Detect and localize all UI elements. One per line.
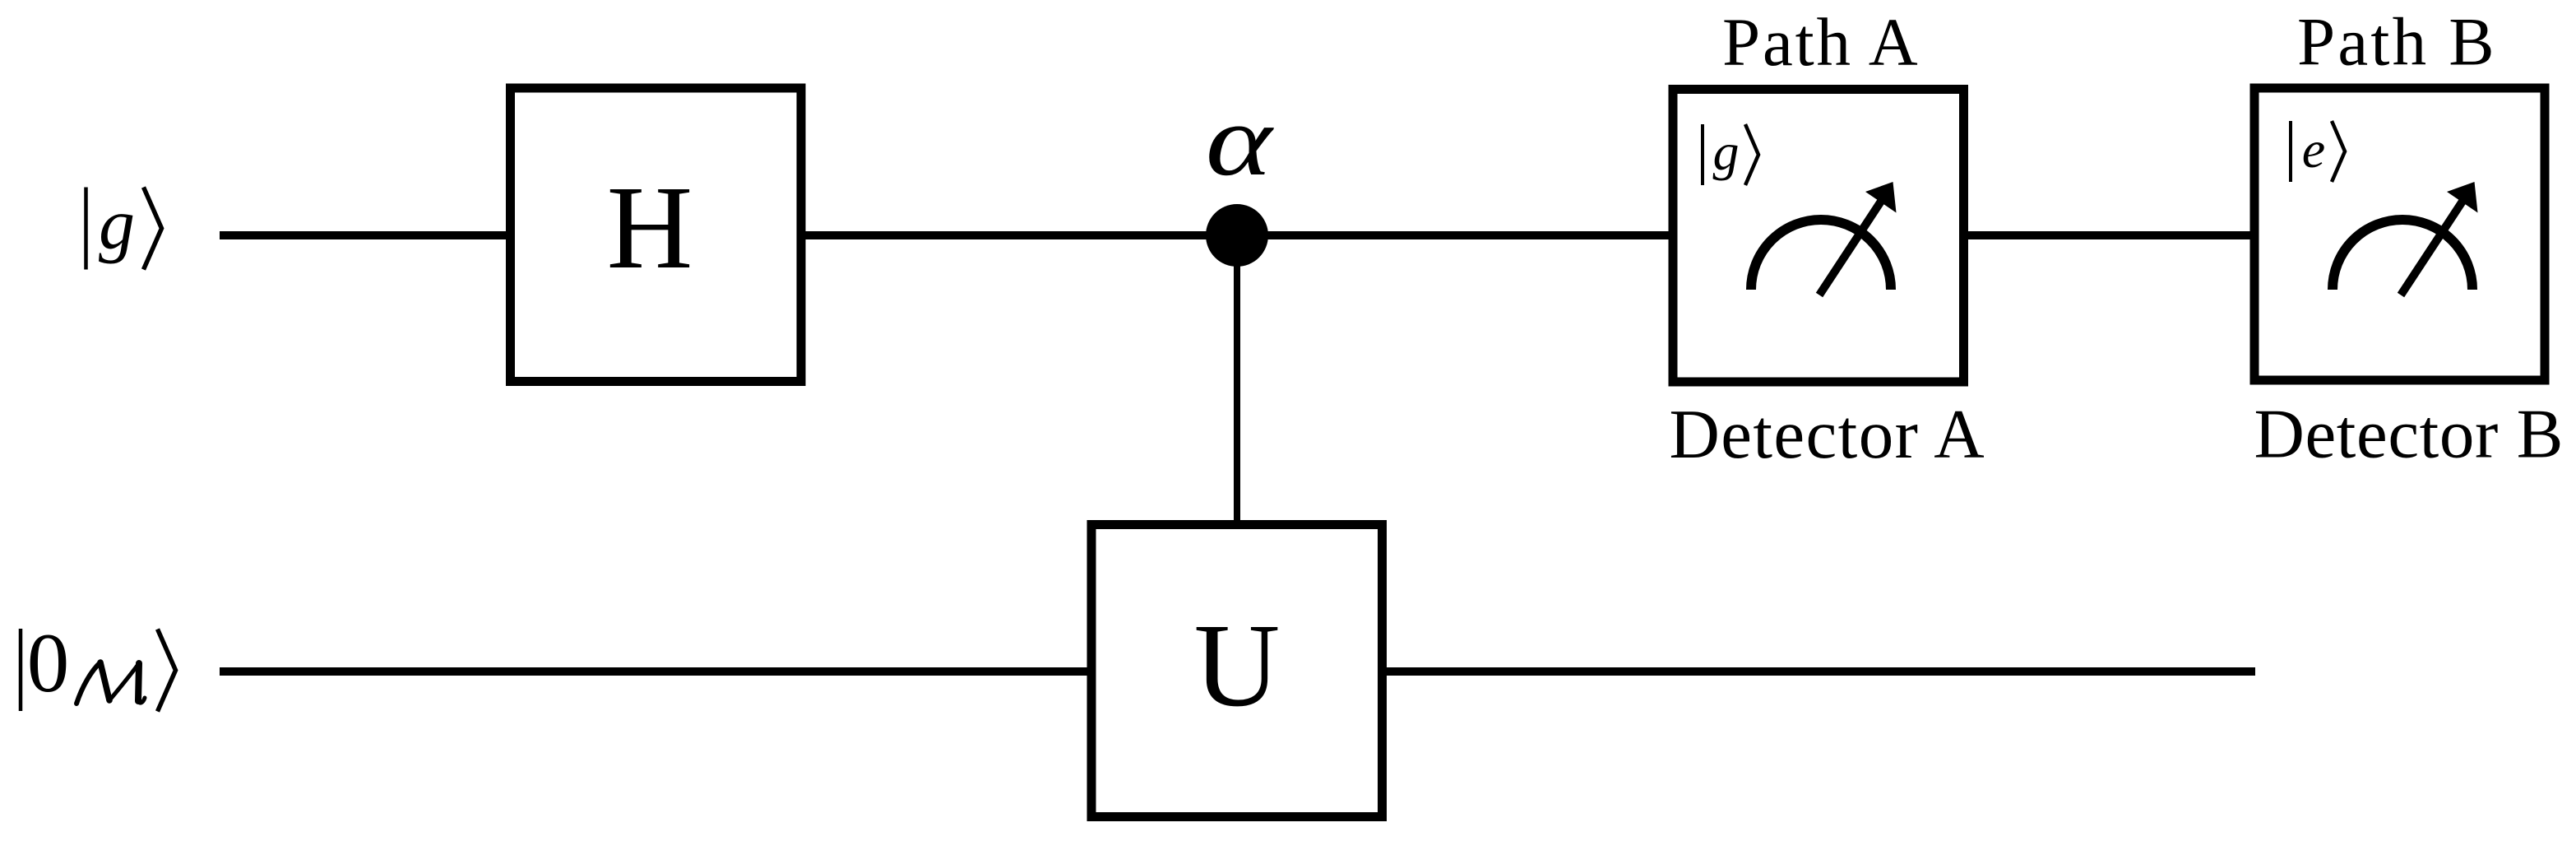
svg-text:Detector A: Detector A [1670,396,1986,473]
svg-text:U: U [1194,600,1281,732]
svg-text:e: e [2302,120,2325,179]
svg-text:Path B: Path B [2297,4,2497,80]
svg-text:Detector B: Detector B [2254,396,2564,473]
svg-text:H: H [607,162,693,294]
svg-text:g: g [99,185,135,265]
svg-text:0: 0 [27,616,70,710]
svg-text:g: g [1713,123,1740,181]
svg-text:α: α [1206,85,1275,197]
svg-text:Path A: Path A [1722,4,1920,80]
